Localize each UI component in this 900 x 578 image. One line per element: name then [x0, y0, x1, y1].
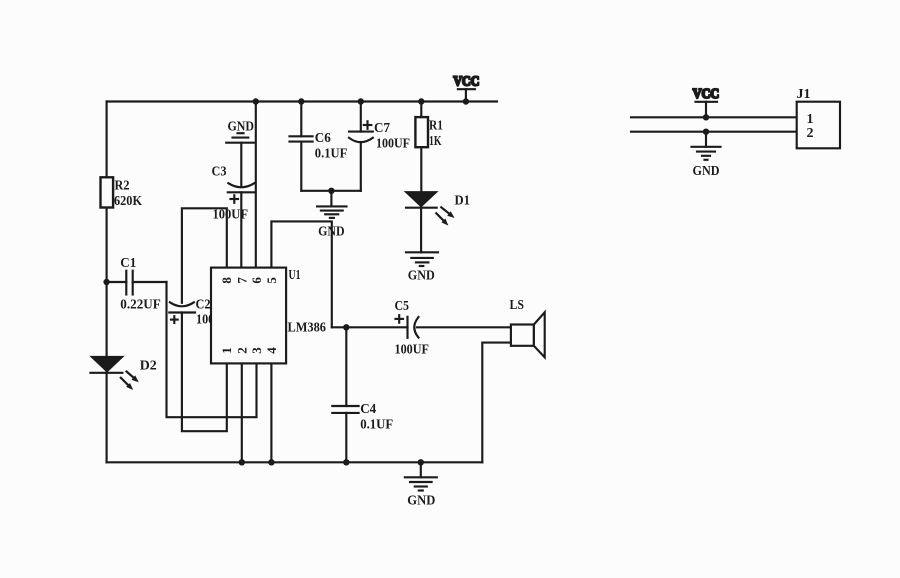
svg-text:VCC: VCC	[453, 75, 479, 90]
wire C6/C7 bottom join	[301, 190, 361, 192]
svg-text:1: 1	[219, 347, 234, 354]
wire pin5 to output node	[271, 221, 331, 327]
LED D1	[406, 192, 470, 226]
svg-text:VCC: VCC	[693, 87, 720, 102]
capacitor C2	[169, 297, 230, 327]
wire top power rail	[107, 100, 497, 102]
svg-text:C5: C5	[395, 299, 410, 314]
node GND stub bottom	[418, 459, 424, 465]
capacitor C7	[349, 102, 410, 191]
ground GND bottom rail	[405, 462, 437, 508]
svg-text:2: 2	[807, 126, 814, 141]
wire pin6 to top rail	[255, 102, 257, 268]
svg-text:C7: C7	[374, 121, 390, 136]
svg-text:LS: LS	[510, 298, 525, 313]
wire pin2 to bottom rail	[241, 363, 243, 462]
svg-text:5: 5	[264, 277, 279, 284]
svg-text:2: 2	[234, 347, 249, 354]
svg-text:GND: GND	[693, 164, 720, 179]
svg-text:3: 3	[249, 347, 264, 354]
ground GND below J1 wire	[692, 132, 721, 179]
node VCC on top rail	[463, 98, 469, 104]
wire left rail vertical	[106, 102, 108, 463]
svg-text:U1: U1	[289, 268, 301, 283]
ground GND below C6/C7	[317, 191, 346, 240]
connector J1	[797, 87, 841, 148]
resistor R1	[415, 102, 443, 192]
svg-text:1: 1	[807, 112, 814, 127]
node C7 on top rail	[358, 98, 364, 104]
node R1 on top rail	[418, 98, 424, 104]
node C6 on top rail	[298, 98, 304, 104]
svg-text:C4: C4	[360, 402, 376, 417]
ground GND above C3 (inverted earth)	[226, 120, 254, 143]
wire C5 to speaker	[417, 326, 511, 328]
node pin2 bottom	[239, 459, 245, 465]
svg-text:0.22UF: 0.22UF	[120, 298, 161, 313]
svg-text:GND: GND	[318, 224, 345, 239]
svg-text:D2: D2	[140, 358, 157, 373]
svg-text:4: 4	[264, 347, 279, 354]
node C4 bottom	[343, 459, 349, 465]
wire bottom ground rail	[107, 461, 483, 463]
wire C3 to pin7	[240, 192, 242, 267]
svg-text:620K: 620K	[114, 194, 142, 209]
node pin6 on top rail	[253, 98, 259, 104]
wire pin4 to bottom rail	[270, 363, 272, 462]
svg-text:100UF: 100UF	[376, 137, 410, 152]
svg-text:0.1UF: 0.1UF	[360, 418, 393, 433]
op-amp U1 LM386	[211, 268, 326, 364]
svg-text:C1: C1	[120, 256, 136, 271]
svg-text:100UF: 100UF	[395, 342, 430, 357]
wire J1 pin2	[631, 131, 797, 133]
wire speaker return to bottom rail	[482, 343, 511, 463]
svg-text:100UF: 100UF	[213, 207, 249, 222]
power VCC symbol J1	[693, 87, 720, 117]
wire C2 bottom to pin1	[182, 313, 227, 432]
LED D2	[90, 357, 156, 390]
node VCC on J1 wire	[703, 114, 709, 120]
node C1 branch on left rail	[103, 279, 109, 285]
capacitor C6	[290, 102, 348, 191]
svg-text:1K: 1K	[429, 134, 442, 149]
svg-text:GND: GND	[407, 494, 435, 509]
node pin4 bottom	[268, 459, 274, 465]
svg-text:C3: C3	[212, 164, 227, 179]
node GND on J1 wire	[703, 129, 709, 135]
svg-text:C6: C6	[315, 131, 331, 146]
svg-text:0.1UF: 0.1UF	[315, 146, 348, 161]
svg-text:7: 7	[234, 277, 249, 284]
capacitor C1	[107, 256, 167, 313]
capacitor C3	[212, 143, 255, 223]
svg-text:J1: J1	[797, 87, 811, 102]
resistor R2	[101, 177, 143, 209]
capacitor C5	[395, 299, 430, 357]
wire C1 to pin3	[167, 282, 257, 417]
svg-text:D1: D1	[455, 194, 471, 209]
svg-text:8: 8	[219, 277, 234, 284]
svg-text:6: 6	[249, 277, 264, 284]
svg-text:C2: C2	[196, 297, 211, 312]
svg-text:LM386: LM386	[288, 321, 327, 336]
node C4 branch	[343, 324, 349, 330]
wire C2 top to pin8	[182, 208, 227, 302]
capacitor C4	[332, 327, 393, 462]
wire D1 to ground	[420, 208, 422, 253]
speaker LS	[510, 298, 545, 357]
node C6/C7 ground junction	[328, 188, 334, 194]
wire J1 pin1	[631, 116, 797, 118]
power VCC symbol left	[453, 75, 479, 102]
svg-text:R1: R1	[429, 119, 443, 134]
ground GND below D1	[406, 252, 438, 283]
wire output node to C5	[332, 326, 408, 328]
svg-text:R2: R2	[115, 179, 130, 194]
svg-text:GND: GND	[408, 269, 435, 284]
